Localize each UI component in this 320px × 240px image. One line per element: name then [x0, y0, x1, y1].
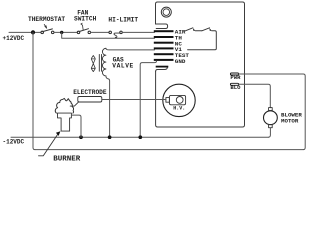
wire GND terminal to ground drop: [140, 61, 156, 137]
wire burner body to -12 rail: [71, 115, 81, 137]
wire between fan switch and hi-limit: [91, 31, 110, 33]
svg-text:GND: GND: [175, 58, 186, 65]
switch FAN SWITCH blade: [79, 29, 89, 32]
wire electrode to H.V.: [102, 99, 166, 101]
terminal AIR: [154, 30, 174, 32]
node TH junction: [60, 31, 63, 34]
svg-text:PWR: PWR: [230, 74, 241, 81]
wire vertical from J1 down to bottom return rail: [33, 32, 35, 149]
wire -12VDC rail: [11, 136, 268, 138]
terminal GND: [154, 59, 174, 61]
wire between thermostat and TH junction: [54, 31, 77, 33]
wire between relay contacts: [195, 30, 202, 32]
switch HI-LIMIT contacts: [109, 31, 112, 34]
flame: [55, 98, 73, 113]
node dot GND ground: [138, 135, 142, 139]
relay contact B point: [210, 28, 212, 31]
H.V. module circle: [163, 84, 195, 116]
blower motor top terminal: [269, 108, 273, 111]
H.V. tab: [166, 98, 170, 103]
svg-text:H.V.: H.V.: [173, 106, 185, 112]
relay contact B blade: [202, 28, 210, 31]
terminal NC: [154, 42, 174, 44]
svg-text:BLO: BLO: [230, 84, 241, 91]
terminal PWR capsule: [230, 73, 238, 75]
wire bottom return rail: [35, 149, 303, 151]
switch THERMOSTAT contacts: [41, 31, 44, 34]
wire hi-limit to AIR terminal: [122, 31, 154, 33]
svg-text:MOTOR: MOTOR: [281, 117, 299, 124]
terminal stub unlabeled: [156, 66, 169, 68]
svg-text:ELECTRODE: ELECTRODE: [73, 89, 107, 96]
gas valve body symbol: [91, 56, 95, 72]
gas valve V1 wire: coil top to V1 terminal: [106, 48, 155, 50]
wire relay to V1: [188, 31, 217, 50]
terminal BLO capsule: [230, 83, 238, 85]
inductor gas valve coil: [102, 48, 105, 76]
node dot burner ground: [79, 135, 83, 139]
svg-text:BURNER: BURNER: [53, 155, 81, 163]
switch FAN SWITCH actuator: [81, 23, 83, 30]
H.V. body: [169, 95, 185, 104]
node junction J1: [31, 30, 35, 34]
svg-text:HI-LIMIT: HI-LIMIT: [108, 17, 138, 24]
grommet circle: [161, 7, 171, 17]
control box notch top: [156, 24, 168, 29]
control box outline: [156, 2, 245, 127]
electrode tip: [70, 102, 78, 106]
terminal TEST: [154, 53, 174, 55]
H.V. inner circle: [176, 97, 183, 104]
blower motor bottom terminal: [269, 125, 273, 128]
wire gas valve coil bottom down to -12 rail: [106, 76, 110, 137]
switch THERMOSTAT blade: [43, 29, 53, 32]
wire BLO to blower motor top: [239, 84, 271, 107]
svg-text:+12VDC: +12VDC: [3, 35, 25, 42]
switch THERMOSTAT actuator arrow: [44, 24, 47, 28]
svg-text:VALVE: VALVE: [112, 63, 134, 70]
switch FAN SWITCH contacts: [77, 31, 80, 34]
wire blower motor bottom to -12 rail: [268, 128, 270, 138]
blower motor body: [264, 111, 278, 125]
relay contact A blade: [185, 28, 193, 31]
wire +12VDC main rail: [9, 31, 41, 33]
svg-text:-12VDC: -12VDC: [3, 138, 25, 145]
wire PWR to right drop to bottom rail: [239, 74, 306, 150]
control box notch bottom: [156, 68, 168, 72]
terminal TH: [154, 36, 174, 38]
relay contact A point: [193, 28, 195, 31]
gas valve core lines: [99, 54, 101, 71]
node dot gas valve ground: [108, 135, 112, 139]
terminal V1: [154, 47, 174, 49]
switch HI-LIMIT thermal curl: [114, 33, 120, 37]
electrode body: [78, 97, 102, 103]
svg-text:SWITCH: SWITCH: [74, 15, 97, 22]
wire TH branch drop and run to TH terminal: [62, 32, 155, 38]
label BURNER with leader arrow: [39, 135, 58, 156]
svg-text:THERMOSTAT: THERMOSTAT: [28, 16, 65, 23]
burner collar: [58, 113, 72, 131]
